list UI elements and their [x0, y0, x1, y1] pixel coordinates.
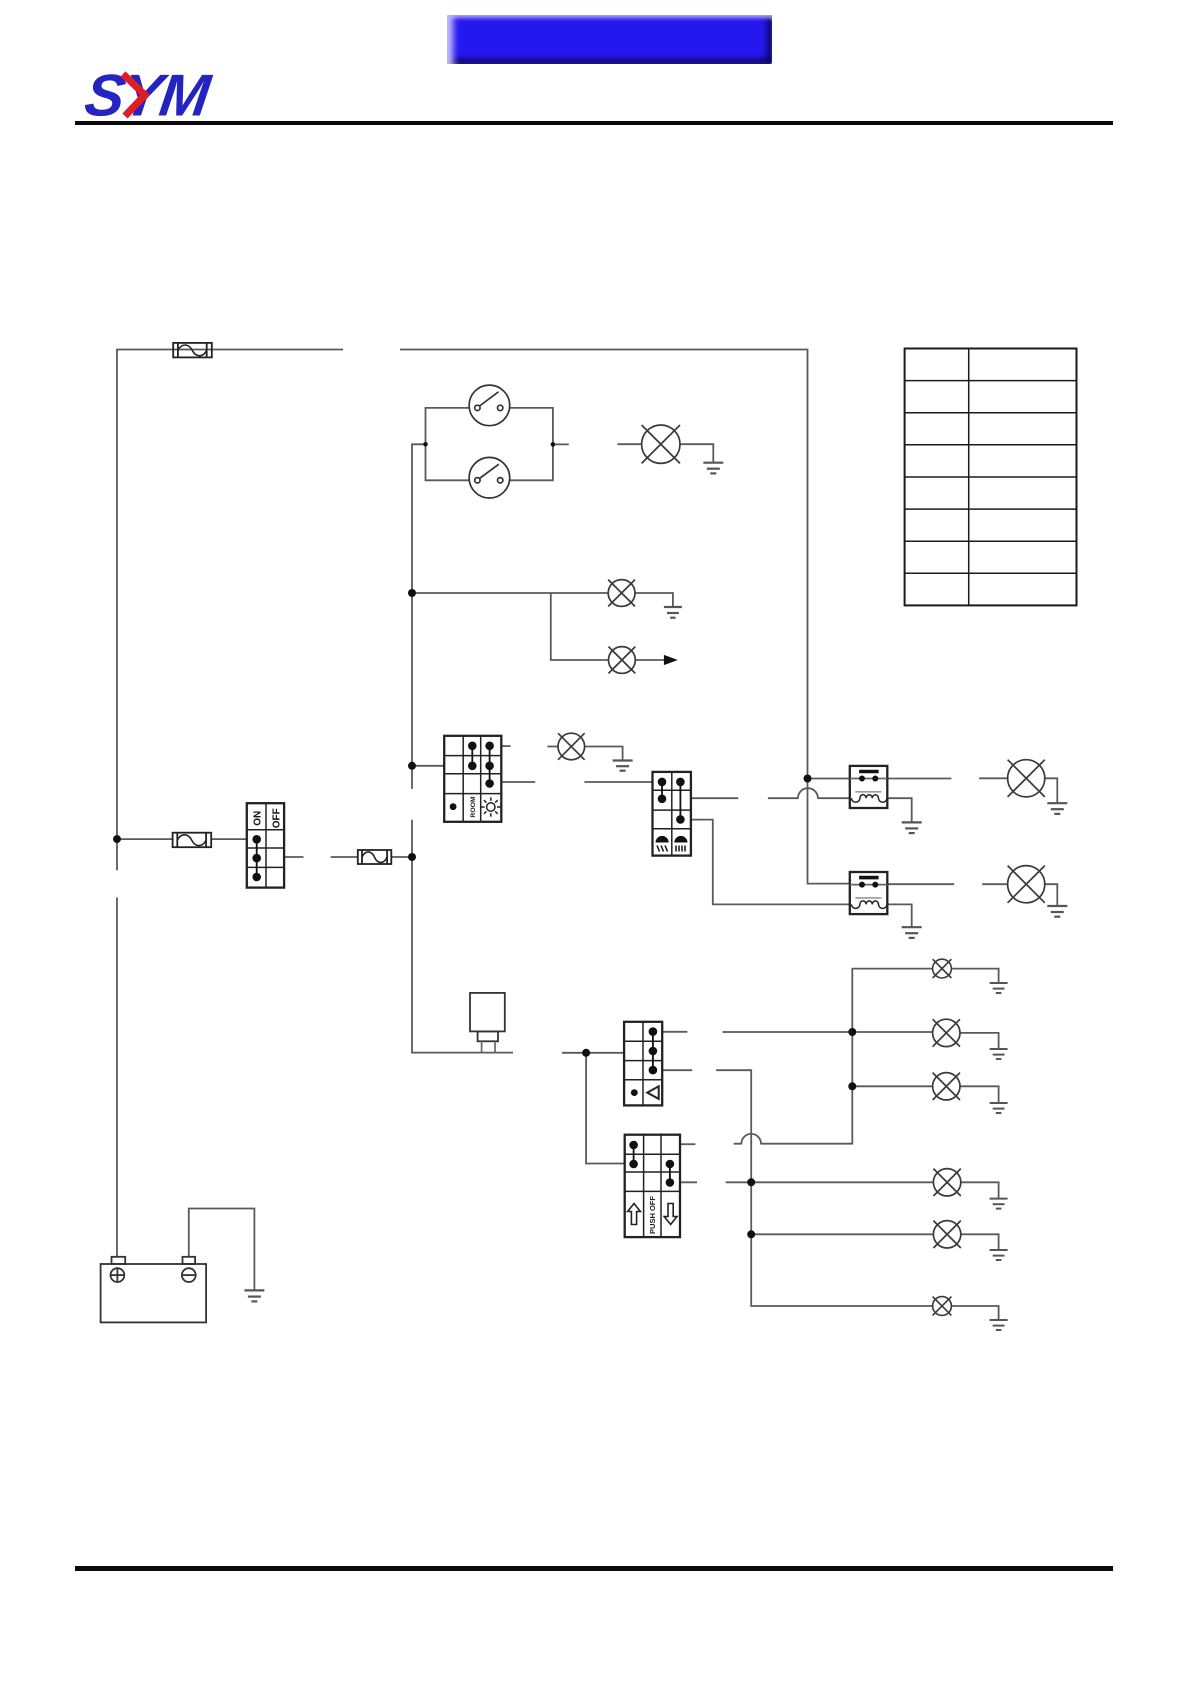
wire: relay1 out segment a	[887, 778, 951, 780]
wire: brake lamp to ground	[680, 444, 713, 462]
node: tail feed	[408, 589, 416, 597]
wire: high beam indicator to ground	[585, 747, 623, 761]
ground G7 (relay2 coil)	[902, 927, 922, 938]
node: lamp E junction	[747, 1230, 755, 1238]
wire: relay2 out segment b	[982, 883, 1007, 885]
headlight switch block	[444, 736, 501, 822]
node: brake branch right	[551, 442, 556, 447]
wire: headlight switch out row3 segment b	[584, 781, 652, 783]
node: fuse3 to bus	[408, 853, 416, 861]
wire: top feed left segment	[117, 350, 343, 871]
wire: turn switch out row1 stub	[662, 1031, 687, 1033]
turn lamp front small (A)	[933, 959, 952, 978]
turn lamp C	[933, 1073, 960, 1100]
wire: lamp F to ground	[951, 1306, 998, 1319]
flasher relay	[470, 993, 505, 1053]
fuse F3	[358, 850, 392, 864]
wire: relay2 out segment a	[887, 883, 954, 885]
wire: flasher bus segment b to turn switch	[562, 1052, 624, 1054]
ground G8	[990, 983, 1008, 993]
blue banner	[447, 15, 772, 64]
lamp position light with arrow	[609, 647, 636, 674]
wire: right lamp D feed	[726, 1181, 934, 1183]
wire: lamp C feed	[852, 1085, 932, 1087]
ground G5 (relay1 coil)	[902, 822, 922, 833]
node: hazard feed	[582, 1049, 590, 1057]
wire: ignition out segment b	[331, 856, 358, 858]
SYM logo	[0, 0, 260, 140]
wire: turn lamps feed line	[723, 1031, 933, 1033]
wire: position lamp to arrow	[635, 659, 665, 661]
header rule	[75, 121, 1113, 125]
headlamp HI	[1008, 760, 1045, 797]
wire: headlamp1 to ground	[1045, 778, 1058, 802]
up arrow icon (hazard)	[628, 1204, 641, 1225]
ground G1 (brake lamp)	[703, 463, 723, 474]
turn lamp E	[933, 1221, 960, 1248]
wire: fuse3 to center bus	[391, 856, 412, 858]
ignition switch block	[247, 803, 284, 887]
wire: ignition feed with fuse	[117, 838, 173, 840]
wire: left bus lower segment to battery	[116, 897, 118, 1257]
wire: relay1 feed from bus	[808, 778, 850, 780]
low beam icon	[656, 836, 669, 852]
ground G3 (high beam ind)	[613, 761, 633, 771]
wire: brake switch left branch	[426, 408, 470, 480]
lamp tail light	[608, 580, 635, 607]
ground G14 (battery)	[244, 1290, 264, 1301]
red chevron	[123, 74, 145, 116]
down arrow icon (hazard)	[664, 1204, 677, 1225]
node: brake branch left	[423, 442, 428, 447]
turn lamp D	[933, 1169, 960, 1196]
wire: lamp A to ground	[951, 969, 998, 983]
svg-text:OFF: OFF	[271, 808, 282, 828]
wire: hazard out row3 stub	[680, 1181, 697, 1183]
ground G10	[990, 1103, 1008, 1113]
lamp high beam indicator	[558, 733, 585, 760]
ground G12	[990, 1250, 1008, 1260]
wire: fuse2 to ignition switch	[211, 838, 247, 840]
wire: lamp B to ground	[960, 1033, 999, 1048]
wire: tail lamp to ground	[635, 593, 673, 607]
wire: center bus lower segment	[412, 820, 513, 1053]
wire: top feed right segment + right bus	[400, 350, 850, 884]
wire: relay1 coil to ground	[887, 798, 911, 822]
fuse F1 (main)	[173, 343, 212, 358]
lamp brake light	[642, 425, 680, 463]
wire: hazard switch feed drop	[586, 1053, 625, 1164]
turn lamp B	[933, 1019, 960, 1046]
wire: lamp E to ground	[961, 1234, 999, 1249]
wire: battery minus to ground	[189, 1209, 255, 1290]
legend table (empty)	[905, 349, 1077, 606]
sun icon (headlight switch)	[481, 797, 500, 816]
brake switch SW2 (rear)	[469, 457, 510, 498]
wire: relay1 out segment b	[979, 777, 1008, 779]
turn signal switch block	[624, 1022, 662, 1106]
ground G2 (tail lamp)	[664, 607, 682, 618]
ground G4 (headlamp HI)	[1047, 803, 1067, 814]
wire: turn switch out row3 stub	[662, 1069, 692, 1071]
wire: headlight switch out row1 stub	[501, 745, 510, 747]
headlamp LO	[1008, 866, 1045, 903]
triangle icon (turn switch)	[647, 1086, 658, 1099]
wire: hazard out row1 with hop joining cluster	[734, 969, 933, 1144]
relay R1 (headlight relay HI)	[850, 766, 888, 808]
wire: turn right drop line	[716, 1070, 933, 1306]
wire: dimmer out HI segment a	[691, 797, 738, 799]
wire: brake lamp feed	[618, 443, 642, 445]
brake switch SW1 (front)	[469, 385, 510, 426]
high beam icon	[674, 836, 687, 852]
wire: lamp C to ground	[960, 1086, 999, 1102]
node: headlight switch feed	[408, 762, 416, 770]
wire: relay2 coil to ground	[887, 904, 911, 926]
relay R2 (headlight relay LO)	[850, 872, 888, 914]
svg-text:PUSH OFF: PUSH OFF	[648, 1196, 657, 1234]
svg-text:ROOM: ROOM	[470, 796, 477, 817]
node: lamp C junction	[848, 1082, 856, 1090]
wire: position lamp branch	[551, 593, 609, 660]
wire: headlight switch out row3 segment a	[501, 781, 535, 783]
wire: brake switch right branch	[510, 408, 553, 480]
node: lamp B junction	[848, 1028, 856, 1036]
ground G13	[990, 1320, 1008, 1330]
wire: ignition out segment a	[284, 856, 303, 858]
fuse F2 (ignition)	[173, 833, 212, 848]
wire: right lamp E feed	[751, 1233, 933, 1235]
svg-text:ON: ON	[253, 811, 264, 826]
wire: headlamp2 to ground	[1045, 884, 1058, 905]
battery	[101, 1257, 207, 1323]
turn lamp rear small (F)	[933, 1297, 952, 1316]
wire: lamp D to ground	[961, 1182, 999, 1198]
ground G6 (headlamp LO)	[1047, 906, 1067, 917]
wire: tail lamp feed	[412, 592, 608, 594]
node: relay1 feed	[804, 775, 812, 783]
ground G11	[990, 1199, 1008, 1209]
wire: dimmer out HI segment b with hop over bus	[768, 788, 850, 798]
wire: headlight switch feed	[412, 765, 444, 767]
hazard switch block	[625, 1135, 680, 1237]
node: ignition feed	[113, 835, 121, 843]
wire: brake branch output stub	[553, 443, 569, 445]
wire: stub from brake branch to center bus	[412, 444, 426, 789]
dimmer switch block	[653, 772, 691, 856]
ground G9	[990, 1049, 1008, 1059]
wire: high beam indicator feed	[547, 746, 557, 748]
footer rule	[75, 1566, 1113, 1571]
arrow head (position lamp output)	[664, 655, 678, 665]
node: lamp D junction	[747, 1178, 755, 1186]
wire: hazard out row1 stub	[680, 1143, 695, 1145]
wire: dimmer out LO down	[691, 820, 850, 905]
